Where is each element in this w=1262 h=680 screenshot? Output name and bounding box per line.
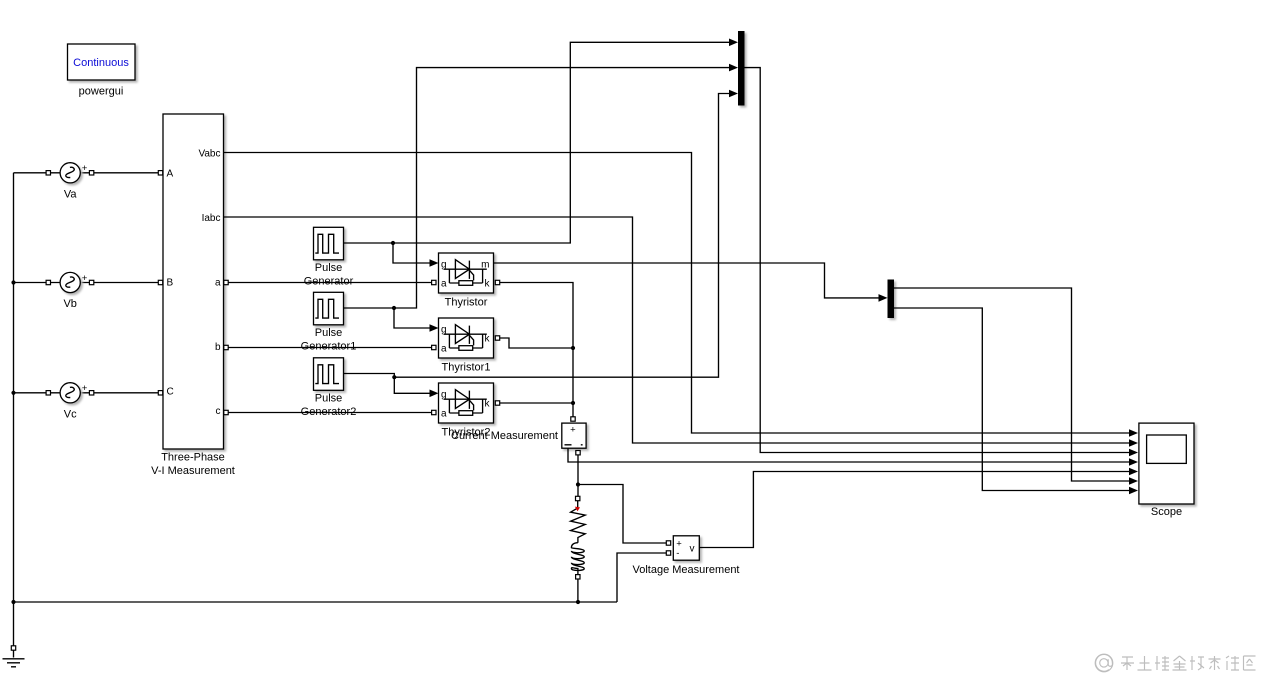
svg-text:m: m [481,259,489,270]
svg-text:Current Measurement: Current Measurement [451,430,558,442]
svg-text:A: A [167,168,174,179]
wire left phase bus [13,173,15,648]
wire Pulse Generator output to Mux input 1 [344,39,739,244]
label Current Measurement [451,430,558,442]
node junction gate2 [392,306,396,310]
svg-text:+: + [82,273,88,284]
svg-text:Three-Phase: Three-Phase [161,452,225,464]
wire bottom return bus [14,601,618,603]
svg-text:a: a [441,279,447,290]
Voltage Measurement block [632,536,739,576]
wire Demux output 2 to Scope input 7 [894,308,1138,494]
svg-text:C: C [167,386,174,397]
node junction gate1 [391,241,395,245]
svg-text:Generator1: Generator1 [301,341,357,353]
svg-text:Voltage Measurement: Voltage Measurement [632,564,739,576]
svg-text:g: g [441,260,447,271]
wire Thyristor2 k to cathode bus [495,401,573,405]
svg-text:+: + [570,425,576,436]
svg-text:Vc: Vc [64,409,77,421]
svg-text:a: a [215,277,221,288]
svg-text:Vabc: Vabc [198,148,220,159]
svg-text:b: b [215,342,221,353]
wire gate branch to Thyristor1 g [394,308,439,332]
node junction load-bottom [576,600,580,604]
wire load top to Voltage Measurement + [578,485,666,544]
svg-text:B: B [167,277,174,288]
wire Thyristor k to cathode bus [495,280,573,416]
demux Demux [888,280,895,319]
node junction Vb-bus [11,280,15,284]
svg-text:V-I Measurement: V-I Measurement [151,465,235,477]
Pulse Generator2 [301,358,357,418]
thyristor Thyristor [439,253,494,309]
wire Mux output to Scope input 3 [745,68,1139,457]
svg-text:Iabc: Iabc [202,213,221,224]
node junction cathode2 [571,401,575,405]
svg-text:v: v [690,543,695,554]
wire Vabc to Scope input 1 [224,153,1139,437]
node junction load-top [576,482,580,486]
svg-text:Va: Va [64,189,78,201]
wire Pulse Generator1 output to Mux input 2 [344,64,739,308]
wire return to Voltage Measurement - [617,553,666,602]
node junction gate3 [392,375,396,379]
svg-text:Vb: Vb [63,298,76,310]
svg-text:Thyristor: Thyristor [445,297,488,309]
svg-text:Thyristor1: Thyristor1 [442,362,491,374]
mux Mux (gate pulses) [738,31,745,106]
AC voltage source Va [14,163,159,201]
wire phase a to Thyristor anode [224,280,436,284]
svg-text:+: + [82,383,88,394]
svg-text:-: - [676,548,679,559]
node junction Vc-bus [11,391,15,395]
ground symbol [3,646,25,667]
svg-text:Pulse: Pulse [315,393,343,405]
Pulse Generator1 [301,292,357,352]
svg-text:g: g [441,390,447,401]
svg-text:g: g [441,325,447,336]
wire Demux output 1 to Scope input 6 [894,288,1138,485]
node junction cathode1 [571,346,575,350]
wire phase b to Thyristor1 anode [224,345,436,349]
svg-text:a: a [441,409,447,420]
svg-text:Pulse: Pulse [315,327,343,339]
wire phase c to Thyristor2 anode [224,410,436,414]
wire Thyristor1 k to cathode bus [495,336,573,348]
Pulse Generator [304,227,354,287]
Scope block [1139,423,1194,518]
wire Voltage Measurement output to Scope input 5 [699,468,1138,548]
wire Pulse Generator2 output to Mux input 3 [344,90,739,378]
wire Iabc to Scope input 2 [224,217,1139,447]
svg-text:c: c [216,406,221,417]
AC voltage source Vb [14,272,159,310]
wire Current Measurement to RLC branch [577,455,579,496]
svg-text:powergui: powergui [79,86,124,98]
Three-Phase V-I Measurement block [151,114,235,477]
thyristor Thyristor1 [439,318,494,374]
svg-text:Scope: Scope [1151,506,1182,518]
Current Measurement block [562,417,586,455]
AC voltage source Vc [14,383,159,421]
wire gate branch to Thyristor g [393,243,439,267]
svg-text:+: + [82,163,88,174]
thyristor Thyristor2 [439,383,494,439]
watermark (decorative) [1095,654,1255,672]
svg-text:Continuous: Continuous [73,57,129,69]
svg-text:Generator: Generator [304,276,354,288]
wire gate branch to Thyristor2 g [394,377,438,397]
wire Thyristor m output to Demux input [494,263,888,302]
node junction bottom-bus [11,600,15,604]
powergui block [68,44,136,98]
svg-text:a: a [441,344,447,355]
wire Current Measurement i output to Scope input 4 [568,448,1138,466]
series RLC branch (R + L) [571,496,586,602]
svg-text:Pulse: Pulse [315,262,343,274]
